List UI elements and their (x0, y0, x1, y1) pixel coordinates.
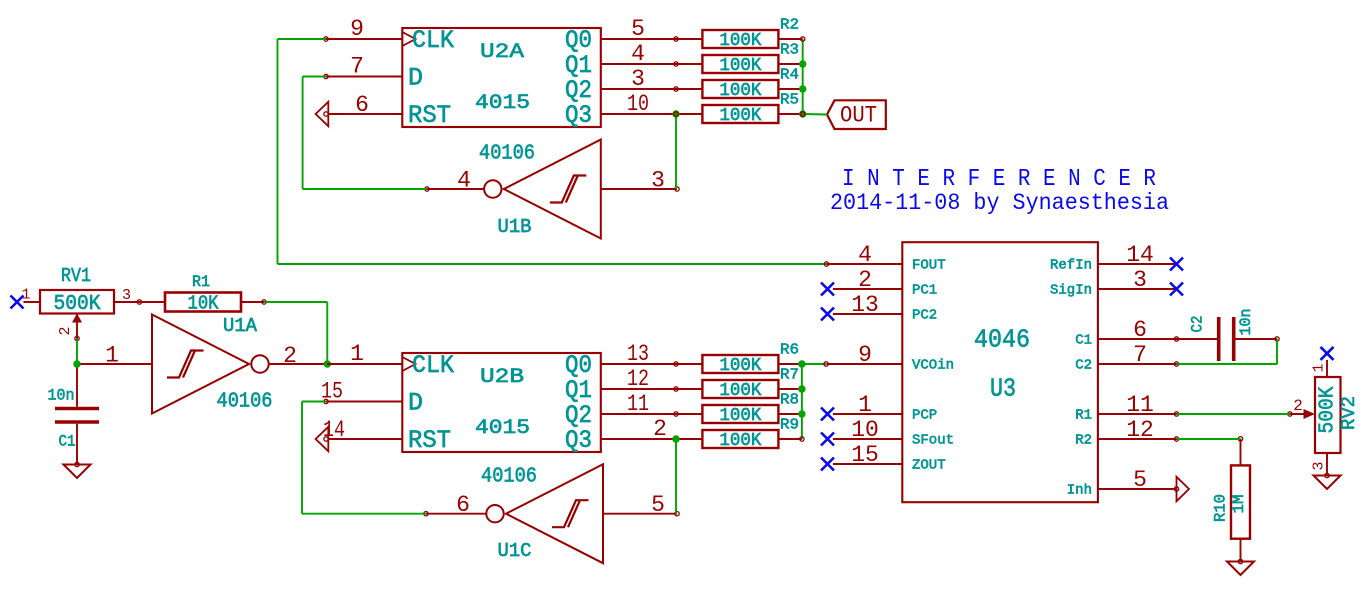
svg-text:1: 1 (1311, 363, 1328, 372)
wire D U2A horizontal (303, 76, 326, 78)
svg-text:6: 6 (355, 92, 369, 118)
inverter U1A 40106 (77, 315, 327, 414)
svg-text:100K: 100K (719, 106, 761, 126)
svg-text:RST: RST (408, 101, 451, 130)
svg-text:4015: 4015 (475, 92, 530, 115)
svg-text:R1: R1 (192, 273, 210, 291)
svg-text:11: 11 (1126, 392, 1154, 418)
svg-text:RefIn: RefIn (1050, 258, 1092, 274)
svg-text:100K: 100K (719, 31, 761, 51)
svg-text:10n: 10n (1237, 309, 1255, 336)
svg-text:13: 13 (851, 292, 879, 318)
svg-text:R6: R6 (780, 342, 799, 359)
wire U1C feedback vertical (301, 402, 303, 514)
svg-text:RV1: RV1 (61, 265, 91, 287)
svg-text:R5: R5 (780, 92, 799, 109)
svg-text:VCOin: VCOin (912, 358, 954, 374)
svg-text:R4: R4 (780, 67, 799, 84)
svg-text:14: 14 (1126, 242, 1154, 268)
resistor R8 100K (676, 392, 802, 426)
svg-text:2: 2 (283, 343, 297, 369)
shift register U2B 4015 (316, 341, 679, 455)
svg-text:4: 4 (457, 168, 471, 194)
svg-text:14: 14 (323, 417, 345, 443)
svg-text:10n: 10n (48, 387, 75, 405)
svg-text:3: 3 (651, 168, 665, 194)
ground for C1 (64, 465, 91, 479)
pin end circle R2 out (801, 37, 805, 41)
global label OUT (827, 100, 886, 129)
svg-text:SigIn: SigIn (1050, 283, 1092, 299)
svg-text:2: 2 (1293, 397, 1303, 415)
no-connect U3 left pin row 414 (821, 408, 834, 421)
svg-text:1: 1 (105, 343, 119, 369)
svg-text:1: 1 (858, 392, 872, 418)
pin 2 PC1 (833, 288, 902, 290)
pin 4 FOUT (827, 263, 903, 265)
svg-text:10K: 10K (188, 293, 220, 315)
svg-text:1: 1 (350, 341, 364, 367)
wire U1C output horizontal (302, 513, 426, 515)
svg-text:CLK: CLK (412, 26, 454, 55)
resistor R4 100K (676, 67, 803, 101)
svg-text:R9: R9 (780, 417, 799, 434)
svg-text:C2: C2 (1189, 316, 1207, 333)
svg-text:15: 15 (851, 442, 879, 468)
potentiometer RV1 500K (21, 265, 141, 341)
no-connect RV1 pin 1 (11, 296, 24, 309)
svg-text:4: 4 (631, 41, 645, 67)
svg-text:RV2: RV2 (1338, 396, 1360, 430)
capacitor C1 10n (48, 364, 100, 467)
pin 13 PC2 (833, 313, 902, 315)
pin 1 PCP (833, 413, 902, 415)
svg-text:R1: R1 (1075, 408, 1092, 424)
wire feedback vertical (326, 302, 328, 364)
svg-text:D: D (408, 389, 423, 418)
ground for R10 (1227, 562, 1254, 576)
svg-text:C1: C1 (1075, 333, 1092, 349)
svg-text:C2: C2 (1075, 358, 1092, 374)
resistor R3 100K (676, 42, 803, 76)
resistor R7 100K (676, 367, 802, 401)
no-connect U3 left pin row 464 (821, 458, 834, 471)
wire Q3 to U1B input (675, 114, 677, 189)
svg-text:U3: U3 (990, 374, 1016, 404)
wire R6-R9 bus (801, 364, 803, 439)
resistor R2 100K (676, 17, 803, 51)
svg-text:7: 7 (350, 54, 364, 80)
wire Q3 U2B to U1C input (675, 439, 677, 514)
wire C2 return to pin 7 (1177, 363, 1278, 365)
svg-text:5: 5 (631, 16, 645, 42)
svg-text:100K: 100K (719, 356, 761, 376)
svg-text:6: 6 (456, 492, 470, 518)
junction R3 (799, 60, 806, 67)
pin 10 SFout (833, 438, 902, 440)
svg-text:2: 2 (57, 326, 74, 335)
svg-text:U1A: U1A (223, 315, 258, 337)
svg-text:U1B: U1B (498, 216, 532, 238)
svg-text:13: 13 (627, 341, 649, 367)
svg-text:500K: 500K (1317, 386, 1340, 433)
svg-text:PC1: PC1 (912, 283, 937, 299)
svg-text:12: 12 (1126, 417, 1154, 443)
svg-text:10: 10 (627, 91, 649, 117)
resistor R6 100K (676, 342, 802, 376)
svg-text:100K: 100K (719, 431, 761, 451)
wire D U2A vertical (302, 77, 304, 190)
PLL U3 4046 (824, 242, 1189, 502)
svg-text:9: 9 (858, 342, 872, 368)
pin 5 Inh (1098, 488, 1177, 490)
svg-text:40106: 40106 (479, 143, 535, 166)
junction C1 node (73, 360, 80, 367)
potentiometer RV2 500K (1288, 360, 1360, 478)
pin 15 ZOUT (833, 463, 902, 465)
svg-text:11: 11 (627, 391, 649, 417)
svg-text:R7: R7 (780, 367, 799, 384)
wire R2 pin12 to R10 (1177, 438, 1241, 440)
junction Q3 U2B (672, 435, 679, 442)
wire R1 to feedback (264, 301, 327, 303)
svg-text:7: 7 (1133, 342, 1147, 368)
svg-text:100K: 100K (719, 56, 761, 76)
resistor R5 100K (676, 92, 803, 126)
wire R2-R5 output bus (802, 39, 804, 114)
svg-text:I N T E R F E R E N C E R: I N T E R F E R E N C E R (842, 166, 1156, 193)
wire CLK net horizontal (278, 38, 327, 40)
wire U1B output (303, 188, 427, 190)
no-connect U3 right pin row 289 (1170, 283, 1183, 296)
pin 11 R1 (1098, 413, 1177, 415)
svg-text:3: 3 (122, 287, 131, 304)
svg-text:R8: R8 (780, 392, 799, 409)
svg-text:100K: 100K (719, 381, 761, 401)
pin 12 R2 (1098, 438, 1177, 440)
no-connect U3 left pin row 314 (821, 308, 834, 321)
pin 9 VCOin (827, 363, 903, 365)
svg-text:PCP: PCP (912, 408, 937, 424)
wire to OUT label (803, 113, 827, 116)
svg-text:2: 2 (653, 416, 667, 442)
svg-text:Q3: Q3 (565, 101, 592, 130)
svg-text:4015: 4015 (475, 417, 530, 440)
svg-text:Q3: Q3 (565, 426, 592, 455)
svg-text:4: 4 (858, 242, 872, 268)
wire bus to VCOin (802, 363, 826, 365)
pin 6 C1 (1098, 338, 1177, 340)
wire RV1 wiper to node (76, 339, 78, 365)
svg-text:U2A: U2A (480, 41, 524, 64)
svg-text:1M: 1M (1230, 495, 1248, 514)
svg-text:ZOUT: ZOUT (912, 458, 946, 474)
junction R5/OUT (799, 110, 806, 117)
svg-text:10: 10 (851, 417, 879, 443)
svg-text:100K: 100K (719, 81, 761, 101)
pin 14 RefIn (1098, 263, 1177, 265)
svg-text:3: 3 (631, 66, 645, 92)
junction U1A output node (324, 360, 331, 367)
svg-text:U1C: U1C (498, 540, 532, 562)
svg-text:R2: R2 (780, 17, 799, 34)
svg-text:5: 5 (1133, 467, 1147, 493)
inverter U1B 40106 (425, 140, 679, 239)
svg-text:2: 2 (858, 267, 872, 293)
no-connect RV2 pin 1 (1321, 347, 1334, 360)
svg-text:3: 3 (1311, 461, 1328, 470)
inverter U1C 40106 (424, 464, 679, 563)
resistor R10 1M (1211, 437, 1250, 564)
wire CLK net vertical (277, 39, 279, 264)
svg-text:6: 6 (1133, 317, 1147, 343)
shift register U2A 4015 (316, 16, 679, 130)
svg-text:PC2: PC2 (912, 308, 937, 324)
ground for RV2 (1314, 476, 1341, 490)
svg-text:C1: C1 (59, 433, 76, 451)
svg-text:Inh: Inh (1067, 483, 1092, 499)
junction R6 (798, 360, 805, 367)
svg-text:5: 5 (651, 492, 665, 518)
wire to D U2B (302, 401, 326, 403)
svg-text:12: 12 (627, 366, 649, 392)
junction R7 (798, 385, 805, 392)
no-connect U3 left pin row 289 (821, 283, 834, 296)
junction R4 (799, 85, 806, 92)
svg-text:CLK: CLK (412, 351, 454, 380)
junction R8 (798, 410, 805, 417)
svg-text:R10: R10 (1211, 494, 1229, 522)
resistor R1 10K (139, 273, 266, 315)
pin end circle R9 out (800, 437, 804, 441)
svg-text:2014-11-08 by Synaesthesia: 2014-11-08 by Synaesthesia (830, 190, 1169, 216)
svg-text:40106: 40106 (217, 391, 273, 414)
wire C2 right vertical (1276, 339, 1278, 364)
svg-text:4046: 4046 (974, 325, 1030, 355)
svg-text:SFout: SFout (912, 433, 954, 449)
junction Q3 U2A (672, 110, 679, 117)
svg-text:500K: 500K (54, 293, 101, 316)
svg-text:9: 9 (350, 16, 364, 42)
svg-text:OUT: OUT (840, 103, 877, 129)
pin 3 SigIn (1098, 288, 1177, 290)
wire to FOUT long horizontal (278, 263, 827, 265)
capacitor C2 10n (1177, 309, 1280, 362)
svg-text:3: 3 (1133, 267, 1147, 293)
svg-text:RST: RST (408, 426, 451, 455)
svg-text:D: D (408, 64, 423, 93)
pin 7 C2 (1098, 363, 1177, 365)
svg-text:40106: 40106 (481, 466, 537, 489)
resistor R9 100K (676, 417, 802, 451)
svg-text:100K: 100K (719, 406, 761, 426)
svg-text:FOUT: FOUT (912, 258, 946, 274)
wire R1 pin11 to RV2 wiper (1177, 413, 1290, 415)
svg-text:R2: R2 (1075, 433, 1092, 449)
no-connect U3 right pin row 264 (1170, 258, 1183, 271)
pin end circle R5 out (801, 112, 805, 116)
no-connect U3 left pin row 439 (821, 433, 834, 446)
svg-text:U2B: U2B (480, 366, 524, 389)
svg-text:R3: R3 (780, 42, 799, 59)
